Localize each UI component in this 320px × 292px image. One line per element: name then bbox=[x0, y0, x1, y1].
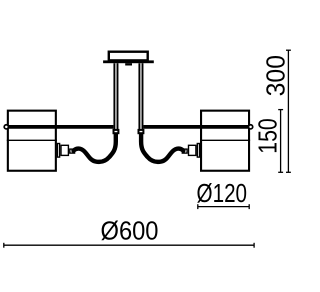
canopy center nub bbox=[125, 63, 132, 65]
svg-text:300: 300 bbox=[263, 55, 291, 96]
right half of lamp (mirrored) bbox=[139, 63, 253, 171]
canopy flange bbox=[103, 60, 154, 63]
dimension line D120 bbox=[198, 204, 249, 209]
dimension line 150 bbox=[278, 110, 283, 173]
dimension line 300 bbox=[286, 50, 291, 172]
left half of lamp bbox=[4, 63, 118, 171]
svg-text:Ø120: Ø120 bbox=[197, 180, 248, 208]
canopy box bbox=[109, 52, 148, 61]
svg-text:Ø600: Ø600 bbox=[101, 217, 159, 245]
dimension line D600 bbox=[4, 243, 254, 248]
svg-text:150: 150 bbox=[255, 118, 283, 154]
